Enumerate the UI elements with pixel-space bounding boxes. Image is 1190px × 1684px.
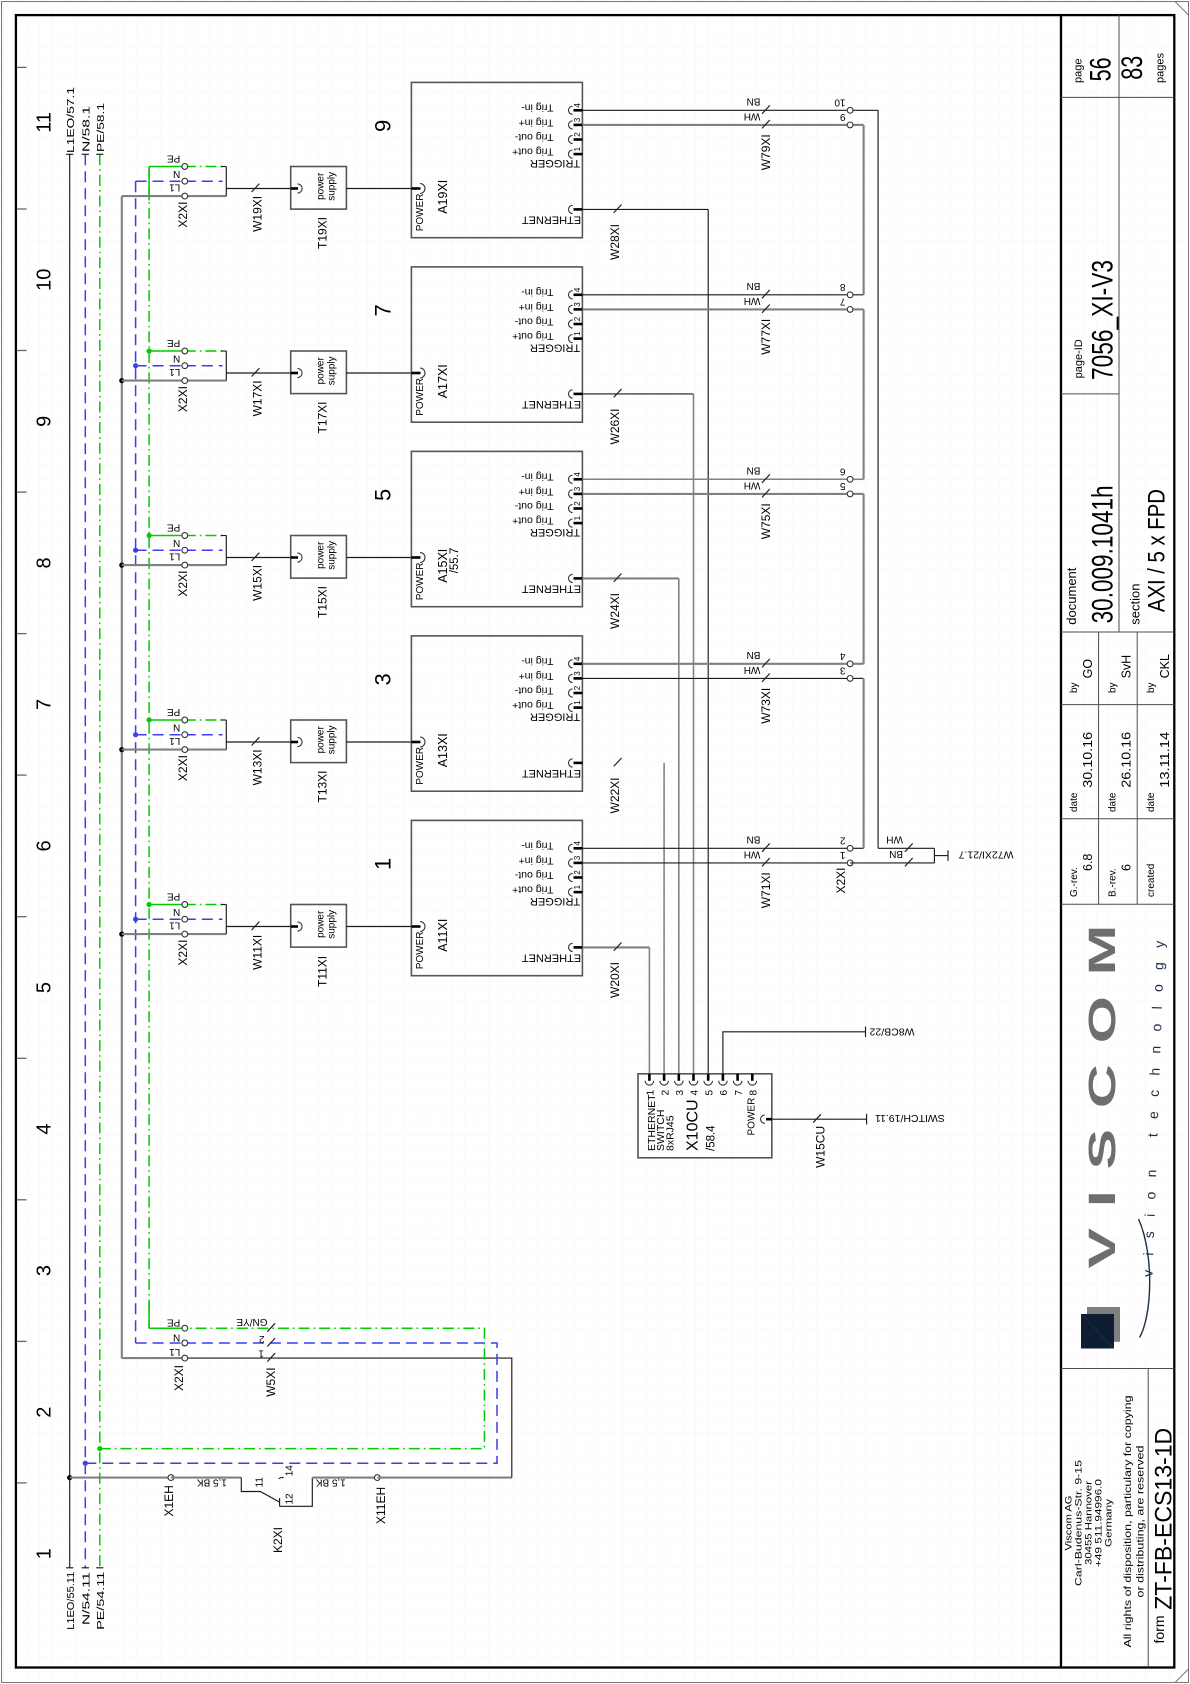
svg-text:VISCOM: VISCOM xyxy=(1081,904,1124,1269)
pin 2 (Trig out-) xyxy=(574,507,583,510)
svg-text:W22XI: W22XI xyxy=(608,777,622,813)
pin POWER xyxy=(411,925,420,928)
wire 1,5 BK (X1EH to K2XI) xyxy=(171,1476,241,1487)
svg-text:W77XI: W77XI xyxy=(759,319,773,355)
svg-text:POWER: POWER xyxy=(415,747,426,785)
terminal L1 xyxy=(122,1357,185,1359)
camera device A11XI xyxy=(411,820,582,975)
wire 1,5 BK (K2XI to X11EH) xyxy=(312,1476,377,1487)
terminal N xyxy=(136,365,185,367)
wire PE riser to X2XI xyxy=(100,1328,485,1448)
svg-text:date: date xyxy=(1108,792,1119,812)
svg-text:3: 3 xyxy=(675,1090,686,1096)
pin 3 (Trig in+) xyxy=(574,677,583,680)
svg-text:12: 12 xyxy=(285,1493,296,1505)
svg-text:1: 1 xyxy=(573,515,582,520)
title cell: date 26.10.16 xyxy=(1108,732,1134,812)
svg-text:WH: WH xyxy=(886,834,903,845)
svg-text:X2XI: X2XI xyxy=(176,571,190,597)
camera device A17XI xyxy=(411,267,582,422)
svg-text:Trig in-: Trig in- xyxy=(521,102,554,114)
svg-text:W24XI: W24XI xyxy=(608,593,622,629)
pin 4 (Trig in-) xyxy=(574,109,583,112)
svg-text:1,5 BK: 1,5 BK xyxy=(315,1476,345,1487)
address block xyxy=(1064,1396,1147,1648)
svg-text:N: N xyxy=(173,906,180,917)
power supply T11XI xyxy=(291,905,347,988)
terminal strip X2XI (trigger bus) xyxy=(834,97,878,894)
terminal L1 xyxy=(122,195,185,197)
cable W8CB (off page /22) xyxy=(723,1025,915,1074)
terminal PE xyxy=(149,719,185,721)
svg-text:X2XI: X2XI xyxy=(176,940,190,966)
svg-text:WH: WH xyxy=(744,479,761,490)
svg-text:GN/YE: GN/YE xyxy=(236,1316,267,1327)
title cell: 83 pages xyxy=(1116,53,1167,83)
svg-text:5: 5 xyxy=(704,1090,715,1096)
node 3 (camera position) xyxy=(371,673,396,685)
title cell: B.-rev. 6 xyxy=(1108,864,1134,897)
cable W75XI xyxy=(582,465,850,540)
terminal X2XI (row 7) xyxy=(119,337,226,412)
svg-text:supply: supply xyxy=(327,541,338,570)
svg-text:supply: supply xyxy=(327,172,338,201)
svg-text:30.009.1041h: 30.009.1041h xyxy=(1086,485,1119,623)
node PE bus junction xyxy=(97,1446,102,1451)
bus N (net N/58.1 to N/54.11) xyxy=(81,106,93,1625)
svg-text:3: 3 xyxy=(34,1265,56,1276)
svg-text:1: 1 xyxy=(258,1347,264,1358)
camera device A19XI xyxy=(411,82,582,237)
cable W11XI xyxy=(226,922,290,970)
svg-text:PE: PE xyxy=(167,521,181,532)
svg-text:N/54.11: N/54.11 xyxy=(81,1572,93,1625)
svg-text:Trig in-: Trig in- xyxy=(521,655,554,667)
svg-text:PE: PE xyxy=(167,706,181,717)
svg-text:1: 1 xyxy=(573,884,582,889)
svg-text:ZT-FB-ECS13-1D: ZT-FB-ECS13-1D xyxy=(1150,1428,1177,1610)
node 9 (camera position) xyxy=(371,120,396,132)
svg-text:4: 4 xyxy=(840,650,846,661)
svg-text:Trig out-: Trig out- xyxy=(514,131,553,143)
svg-text:Trig in-: Trig in- xyxy=(521,286,554,298)
terminal L1 xyxy=(122,749,185,751)
svg-text:8: 8 xyxy=(34,557,56,568)
svg-text:8: 8 xyxy=(749,1090,760,1096)
svg-text:1: 1 xyxy=(840,849,846,860)
svg-text:page-ID: page-ID xyxy=(1073,339,1085,378)
cable W13XI xyxy=(226,737,290,785)
svg-text:Germany: Germany xyxy=(1104,1499,1115,1547)
svg-text:by: by xyxy=(1069,682,1080,693)
VISCOM logo xyxy=(1081,904,1168,1349)
svg-text:W19XI: W19XI xyxy=(251,196,265,232)
svg-text:8xRJ45: 8xRJ45 xyxy=(664,1115,676,1151)
svg-text:A13XI: A13XI xyxy=(436,733,450,767)
pin 4 (Trig in-) xyxy=(574,293,583,296)
svg-text:6: 6 xyxy=(719,1090,730,1096)
svg-text:ETHERNET: ETHERNET xyxy=(522,952,582,964)
svg-text:power: power xyxy=(316,172,327,200)
svg-text:3: 3 xyxy=(371,673,396,685)
svg-text:L1: L1 xyxy=(169,920,181,931)
svg-text:4: 4 xyxy=(573,841,582,846)
terminal X11EH xyxy=(374,1475,388,1524)
title cell: by SvH xyxy=(1108,655,1134,693)
svg-text:56: 56 xyxy=(1085,57,1118,81)
svg-text:form: form xyxy=(1151,1616,1167,1644)
svg-text:supply: supply xyxy=(327,725,338,754)
svg-text:/58.4: /58.4 xyxy=(706,1125,718,1151)
svg-text:by: by xyxy=(1108,682,1119,693)
svg-text:6: 6 xyxy=(34,840,56,851)
svg-text:ETHERNET: ETHERNET xyxy=(522,398,582,410)
node 7 (camera position) xyxy=(371,304,396,316)
svg-text:4: 4 xyxy=(690,1090,701,1096)
pin 14 (NO contact) xyxy=(279,1477,284,1478)
cable W72XI (off page /21.7) xyxy=(850,834,1013,867)
pin 3 (Trig in+) xyxy=(574,493,583,496)
svg-text:K2XI: K2XI xyxy=(271,1527,285,1553)
svg-text:5: 5 xyxy=(840,480,846,491)
svg-text:9: 9 xyxy=(840,111,846,122)
svg-text:9: 9 xyxy=(34,416,56,427)
svg-text:L1: L1 xyxy=(169,735,181,746)
svg-text:T15XI: T15XI xyxy=(316,586,330,618)
svg-text:1: 1 xyxy=(573,146,582,151)
svg-text:by: by xyxy=(1146,682,1157,693)
svg-text:PE/54.11: PE/54.11 xyxy=(95,1572,107,1630)
svg-text:Trig out+: Trig out+ xyxy=(512,515,553,527)
core GN/YE (PE) xyxy=(267,1323,275,1331)
svg-text:4: 4 xyxy=(573,656,582,661)
svg-text:AXI / 5 x FPD: AXI / 5 x FPD xyxy=(1144,489,1171,612)
title cell: section AXI / 5 x FPD xyxy=(1127,489,1170,625)
svg-text:Trig out-: Trig out- xyxy=(514,684,553,696)
power supply T15XI xyxy=(291,536,347,619)
cable W73XI xyxy=(582,649,850,724)
title cell: by CKL xyxy=(1146,654,1172,693)
svg-text:Trig in-: Trig in- xyxy=(521,840,554,852)
title cell: page-ID 7056_XI-V3 xyxy=(1073,260,1120,380)
svg-text:WH: WH xyxy=(744,664,761,675)
svg-text:6: 6 xyxy=(840,466,846,477)
svg-text:WH: WH xyxy=(744,848,761,859)
svg-text:BN: BN xyxy=(746,465,760,476)
svg-text:BN: BN xyxy=(746,280,760,291)
svg-text:Trig in-: Trig in- xyxy=(521,471,554,483)
terminal PE xyxy=(149,1327,185,1329)
pin 4 (Trig in-) xyxy=(574,662,583,665)
pin 2 (Trig out-) xyxy=(574,138,583,141)
svg-text:supply: supply xyxy=(327,356,338,385)
svg-text:3: 3 xyxy=(573,117,582,122)
svg-text:GO: GO xyxy=(1081,659,1095,679)
terminal PE xyxy=(149,350,185,352)
pin 2 (Trig out-) xyxy=(574,323,583,326)
svg-text:X10CU: X10CU xyxy=(685,1099,702,1151)
pin 1 (Trig out+) xyxy=(574,337,583,340)
svg-text:X2XI: X2XI xyxy=(176,386,190,412)
svg-text:11: 11 xyxy=(254,1477,265,1488)
svg-text:10: 10 xyxy=(834,97,846,108)
svg-text:date: date xyxy=(1146,792,1157,812)
svg-text:Trig in+: Trig in+ xyxy=(519,485,554,497)
svg-text:3: 3 xyxy=(573,671,582,676)
svg-text:power: power xyxy=(316,541,327,569)
svg-text:BN: BN xyxy=(746,96,760,107)
svg-text:N: N xyxy=(173,722,180,733)
terminal L1 xyxy=(122,933,185,935)
terminal PE xyxy=(149,904,185,906)
svg-text:A11XI: A11XI xyxy=(436,919,450,952)
svg-text:X2XI: X2XI xyxy=(172,1365,186,1391)
svg-text:N: N xyxy=(173,353,180,364)
svg-text:B.-rev.: B.-rev. xyxy=(1108,868,1119,897)
cable W22XI xyxy=(608,758,664,1074)
pin 1 (Trig out+) xyxy=(574,891,583,894)
terminal N xyxy=(136,734,185,736)
pin 1 (Trig out+) xyxy=(574,522,583,525)
cable W5XI (cores 1, 2, GN/YE) xyxy=(236,1316,278,1397)
svg-text:7056_XI-V3: 7056_XI-V3 xyxy=(1087,260,1120,380)
terminal N xyxy=(136,918,185,920)
pin 3 (Trig in+) xyxy=(574,862,583,865)
svg-text:Trig in+: Trig in+ xyxy=(519,670,554,682)
svg-text:3: 3 xyxy=(573,855,582,860)
svg-text:2: 2 xyxy=(573,685,582,690)
svg-text:W13XI: W13XI xyxy=(251,749,265,785)
svg-text:5: 5 xyxy=(371,489,396,501)
svg-text:POWER: POWER xyxy=(415,563,426,601)
svg-text:ETHERNET: ETHERNET xyxy=(522,767,582,779)
pin 2 (Trig out-) xyxy=(574,692,583,695)
svg-text:X11EH: X11EH xyxy=(374,1487,388,1524)
svg-text:1: 1 xyxy=(573,700,582,705)
svg-text:T13XI: T13XI xyxy=(316,770,330,802)
svg-text:10: 10 xyxy=(34,269,56,291)
pin 4 (Trig in-) xyxy=(574,847,583,850)
wire L1 distribution chain xyxy=(121,196,123,1358)
svg-text:document: document xyxy=(1064,567,1079,624)
svg-text:L1: L1 xyxy=(169,366,181,377)
camera device A13XI xyxy=(411,636,582,791)
svg-text:W17XI: W17XI xyxy=(251,380,265,416)
svg-text:N: N xyxy=(173,168,180,179)
svg-text:9: 9 xyxy=(371,120,396,132)
svg-text:2: 2 xyxy=(573,316,582,321)
svg-text:power: power xyxy=(316,726,327,754)
svg-text:WH: WH xyxy=(744,295,761,306)
svg-text:13.11.14: 13.11.14 xyxy=(1158,732,1172,788)
cable W28XI xyxy=(582,205,708,1074)
svg-text:N: N xyxy=(173,537,180,548)
pin 7 xyxy=(736,1074,739,1081)
svg-text:L1: L1 xyxy=(169,182,181,193)
svg-text:W75XI: W75XI xyxy=(759,503,773,539)
svg-text:1: 1 xyxy=(573,331,582,336)
svg-text:BN: BN xyxy=(746,834,760,845)
bus L1EO (net L1EO/57.1 to L1EO/55.11) xyxy=(65,87,77,1630)
terminal L1 xyxy=(122,564,185,566)
svg-text:or distributing, are reserved: or distributing, are reserved xyxy=(1136,1446,1147,1598)
svg-text:Trig out+: Trig out+ xyxy=(512,884,553,896)
svg-text:/55.7: /55.7 xyxy=(449,548,461,574)
svg-text:Trig out-: Trig out- xyxy=(514,315,553,327)
svg-text:X2XI: X2XI xyxy=(176,202,190,228)
wire PE distribution chain xyxy=(148,167,150,1329)
svg-text:7: 7 xyxy=(34,699,56,710)
svg-text:W79XI: W79XI xyxy=(759,134,773,170)
svg-text:section: section xyxy=(1127,583,1142,624)
cable W15XI xyxy=(226,553,290,601)
svg-text:6: 6 xyxy=(1120,864,1134,871)
svg-text:W11XI: W11XI xyxy=(251,935,265,970)
relay contact K2XI (11-12-14) xyxy=(241,1465,312,1553)
svg-text:POWER: POWER xyxy=(415,194,426,232)
bus PE (net PE/58.1 to PE/54.11) xyxy=(95,103,107,1630)
svg-text:2: 2 xyxy=(573,132,582,137)
wire L1 riser to X2XI xyxy=(185,1358,512,1478)
node 5 (camera position) xyxy=(371,489,396,501)
svg-text:T11XI: T11XI xyxy=(316,956,330,987)
svg-text:8: 8 xyxy=(840,281,846,292)
svg-text:4: 4 xyxy=(573,472,582,477)
ethernet switch X10CU xyxy=(638,1074,772,1158)
svg-text:A15XI: A15XI xyxy=(436,549,450,583)
terminal N xyxy=(136,1342,185,1344)
terminal N xyxy=(136,180,185,182)
svg-text:L1: L1 xyxy=(169,1346,181,1357)
pin POWER xyxy=(411,741,420,744)
title cell: page 56 xyxy=(1073,57,1118,83)
svg-text:L1EO/57.1: L1EO/57.1 xyxy=(65,87,77,153)
svg-text:3: 3 xyxy=(573,486,582,491)
title cell: created xyxy=(1146,864,1157,897)
svg-text:Trig out+: Trig out+ xyxy=(512,330,553,342)
svg-text:TRIGGER: TRIGGER xyxy=(530,895,580,907)
pin 1 xyxy=(648,1074,651,1081)
core 1 (L1) xyxy=(267,1353,275,1361)
svg-text:PE: PE xyxy=(167,152,181,163)
svg-text:4: 4 xyxy=(573,287,582,292)
cable W24XI xyxy=(582,574,678,1074)
svg-text:PE: PE xyxy=(167,1317,181,1328)
title cell: date 13.11.14 xyxy=(1146,732,1172,812)
svg-text:W15XI: W15XI xyxy=(251,565,265,601)
svg-text:All rights of disposition, par: All rights of disposition, particulary f… xyxy=(1123,1396,1134,1648)
svg-text:CKL: CKL xyxy=(1158,654,1172,678)
terminal X2XI (row 3) xyxy=(119,706,226,781)
svg-text:5: 5 xyxy=(34,982,56,993)
pin 6 xyxy=(722,1074,725,1081)
terminal X2XI (supply) xyxy=(122,1317,188,1391)
pin 3 (Trig in+) xyxy=(574,124,583,127)
svg-text:1: 1 xyxy=(371,858,396,870)
svg-text:T17XI: T17XI xyxy=(316,401,330,433)
svg-text:WH: WH xyxy=(744,110,761,121)
svg-text:W71XI: W71XI xyxy=(759,872,773,908)
terminal PE xyxy=(149,535,185,537)
grid reference column xyxy=(17,67,56,1559)
wire power feed xyxy=(346,557,411,559)
terminal L1 xyxy=(122,380,185,382)
svg-text:Trig out-: Trig out- xyxy=(514,500,553,512)
svg-text:L1EO/55.11: L1EO/55.11 xyxy=(65,1572,77,1630)
svg-text:date: date xyxy=(1069,792,1080,812)
title cell: date 30.10.16 xyxy=(1069,732,1095,812)
svg-text:7: 7 xyxy=(734,1090,745,1096)
svg-text:4: 4 xyxy=(34,1124,56,1135)
svg-text:W20XI: W20XI xyxy=(608,962,622,998)
svg-text:14: 14 xyxy=(285,1465,296,1477)
svg-text:2: 2 xyxy=(573,870,582,875)
cable W79XI xyxy=(582,96,850,171)
pin 11 (common) xyxy=(241,1478,279,1503)
cable W17XI xyxy=(226,368,290,416)
pin POWER xyxy=(766,1118,772,1121)
svg-text:W8CB/22: W8CB/22 xyxy=(869,1025,914,1037)
wire power feed xyxy=(346,926,411,928)
svg-text:30.10.16: 30.10.16 xyxy=(1081,732,1095,788)
wire power feed xyxy=(346,741,411,743)
svg-text:3: 3 xyxy=(573,302,582,307)
svg-text:BN: BN xyxy=(746,649,760,660)
cable W77XI xyxy=(582,280,850,355)
svg-text:TRIGGER: TRIGGER xyxy=(530,526,580,538)
power supply T13XI xyxy=(291,720,347,803)
cable W20XI xyxy=(582,943,649,1074)
pin 3 xyxy=(677,1074,680,1081)
svg-text:BN: BN xyxy=(889,848,903,859)
svg-text:N/58.1: N/58.1 xyxy=(81,106,93,152)
title cell: by GO xyxy=(1069,659,1095,693)
svg-text:PE: PE xyxy=(167,890,181,901)
pin ETHERNET xyxy=(574,762,583,765)
pin ETHERNET xyxy=(574,393,583,396)
power supply T17XI xyxy=(291,351,347,434)
svg-text:TRIGGER: TRIGGER xyxy=(530,341,580,353)
svg-text:PE: PE xyxy=(167,337,181,348)
svg-text:A17XI: A17XI xyxy=(436,364,450,398)
svg-text:power: power xyxy=(316,910,327,938)
node 1 (camera position) xyxy=(371,858,396,870)
svg-text:POWER: POWER xyxy=(415,378,426,416)
terminal N xyxy=(136,549,185,551)
node L1 bus junction xyxy=(67,1475,72,1480)
svg-text:L1: L1 xyxy=(169,551,181,562)
svg-text:W26XI: W26XI xyxy=(608,408,622,444)
svg-text:3: 3 xyxy=(840,665,846,676)
pin 4 (Trig in-) xyxy=(574,478,583,481)
svg-text:Trig out-: Trig out- xyxy=(514,869,553,881)
pin POWER xyxy=(411,556,420,559)
core 2 (N) xyxy=(267,1338,275,1346)
svg-text:Trig out+: Trig out+ xyxy=(512,146,553,158)
cable W26XI xyxy=(582,389,693,1074)
svg-text:TRIGGER: TRIGGER xyxy=(530,710,580,722)
svg-text:1: 1 xyxy=(34,1548,56,1559)
svg-text:2: 2 xyxy=(573,501,582,506)
svg-text:4: 4 xyxy=(573,103,582,108)
svg-text:11: 11 xyxy=(34,112,56,133)
svg-text:W28XI: W28XI xyxy=(608,224,622,260)
svg-text:page: page xyxy=(1073,59,1085,83)
wire power feed xyxy=(346,188,411,190)
terminal PE xyxy=(149,166,185,168)
svg-text:created: created xyxy=(1146,864,1157,897)
svg-text:G.-rev.: G.-rev. xyxy=(1069,867,1080,897)
